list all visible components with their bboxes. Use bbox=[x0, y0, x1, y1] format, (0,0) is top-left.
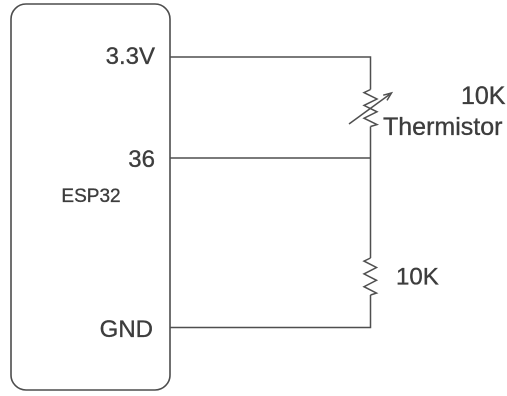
thermistor arrow bbox=[349, 95, 390, 125]
ESP32 U1 body bbox=[11, 4, 170, 390]
wire 3.3V pin to node top bbox=[170, 57, 371, 90]
svg-text:10K: 10K bbox=[396, 264, 439, 291]
svg-text:GND: GND bbox=[100, 316, 153, 343]
thermistor RT1 zigzag bbox=[364, 90, 377, 127]
wire pin 36 to node A bbox=[170, 157, 371, 159]
svg-text:10K: 10K bbox=[461, 82, 506, 110]
resistor R1 zigzag bbox=[364, 258, 377, 295]
svg-text:36: 36 bbox=[128, 146, 155, 173]
svg-text:3.3V: 3.3V bbox=[106, 43, 155, 70]
wire resistor to GND wire bbox=[170, 295, 371, 328]
svg-text:ESP32: ESP32 bbox=[61, 186, 120, 207]
wire thermistor to node A bbox=[370, 127, 372, 259]
svg-text:Thermistor: Thermistor bbox=[383, 113, 502, 141]
